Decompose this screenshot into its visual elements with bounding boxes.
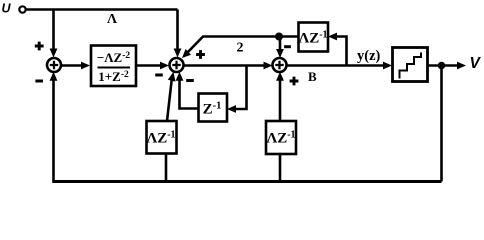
svg-text:V: V	[470, 55, 482, 72]
wire: block H1 to summer S2	[136, 62, 169, 70]
wire: branch down from top line to summer S1	[50, 10, 58, 58]
svg-text:Z-1: Z-1	[203, 101, 222, 118]
svg-text:ΛZ-1: ΛZ-1	[298, 30, 327, 47]
summer S1	[47, 58, 61, 72]
block F3: Lambda z^-1 (right feedback)	[266, 121, 296, 154]
junction node on feedforward line	[275, 33, 283, 41]
input terminal circle	[19, 6, 25, 12]
svg-text:Λ: Λ	[107, 12, 117, 27]
minus sign at summer S1 bottom input	[35, 80, 43, 83]
minus sign at summer S2 lower-left input	[155, 74, 163, 77]
wire: bottom line up through block F3 into summer S3	[276, 72, 284, 182]
plus sign at summer S3 bottom input	[290, 77, 299, 86]
block D1: z^-1	[199, 94, 228, 122]
svg-text:ΛZ-1: ΛZ-1	[266, 130, 295, 147]
wire: block D1 output up into summer S2	[176, 72, 199, 109]
quantizer Q1	[393, 48, 428, 82]
block F2: Lambda z^-1 (left feedback)	[146, 121, 176, 154]
wire: feedforward line y=36.5 with diagonal into summer S2	[182, 37, 298, 59]
wire: drop from junction into summer S3	[276, 37, 284, 59]
wire: top line from U to corner	[26, 8, 178, 11]
wire: tap from y(z) up and into block F1	[328, 33, 347, 66]
wire: bottom line up into summer S1	[50, 72, 58, 182]
wire: corner drop from top line into summer S2	[174, 10, 182, 58]
plus sign at summer S2 diagonal input	[196, 50, 205, 59]
svg-text:B: B	[308, 69, 317, 84]
plus sign at summer S1 top input	[35, 42, 44, 51]
wire: feedback from output node down	[440, 66, 443, 182]
minus sign at summer S2 lower-right input	[186, 79, 194, 82]
block F1: Lambda z^-1 (top feedback)	[298, 23, 328, 52]
svg-text:U: U	[2, 2, 12, 16]
junction node at output V	[438, 62, 446, 70]
wire: quantizer to V with junction	[428, 62, 467, 70]
wire: bottom line up through block F2 into summer S2	[166, 72, 176, 182]
wire: bottom feedback line	[52, 180, 441, 183]
svg-text:ΛZ-1: ΛZ-1	[146, 130, 175, 147]
wire: summer S1 to block H1	[61, 62, 90, 70]
summer S3	[273, 58, 287, 72]
summer S2	[170, 58, 184, 72]
svg-text:2: 2	[237, 41, 244, 56]
svg-text:y(z): y(z)	[357, 48, 381, 64]
wire: summer S3 to quantizer	[287, 62, 393, 70]
svg-text:1+Z-2: 1+Z-2	[98, 69, 129, 84]
wire: branch from main line down to block D1 input	[227, 66, 247, 113]
minus sign at summer S3 top input	[284, 45, 291, 48]
svg-text:−ΛZ-2: −ΛZ-2	[97, 50, 131, 65]
block H1: -Lambda z^-2 / (1 + z^-2)	[91, 46, 136, 87]
wire: summer S2 to summer S3	[184, 62, 273, 70]
